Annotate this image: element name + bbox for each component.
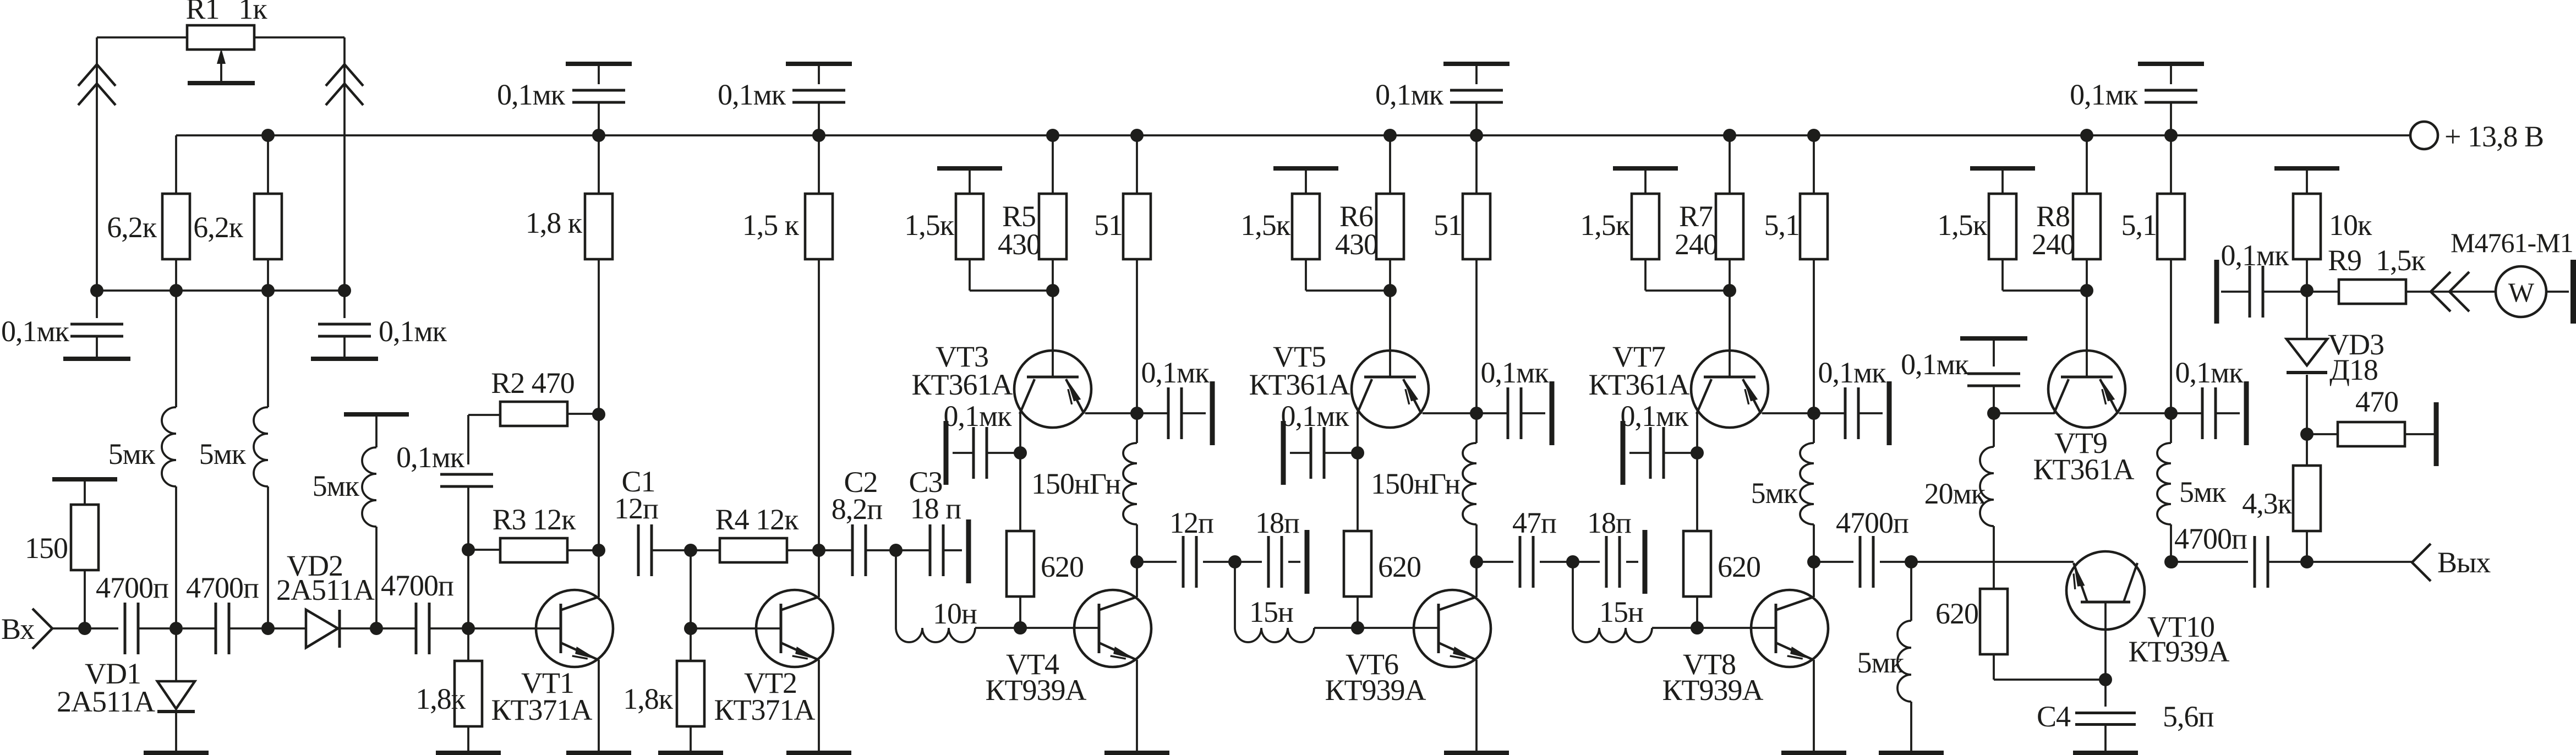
antenna chevrons left <box>78 64 116 86</box>
node bias 6,2k1 <box>169 284 183 297</box>
bar 470 <box>2434 402 2439 466</box>
svg-text:12п: 12п <box>1169 506 1213 539</box>
bar meter <box>2570 260 2576 324</box>
transistor VT4 KT939A <box>1074 590 1151 667</box>
svg-text:150нГн: 150нГн <box>1031 467 1120 500</box>
wire to VT10 emitter <box>1911 561 2074 563</box>
node VT3 emitter load <box>1130 555 1144 568</box>
resistor 150 <box>52 477 117 482</box>
svg-text:0,1мк: 0,1мк <box>1 315 70 348</box>
svg-text:5мк: 5мк <box>1751 477 1798 510</box>
wire VT4 collector <box>1136 562 1138 597</box>
node VT7 emitter load <box>1807 555 1820 568</box>
resistor R6 430 <box>1389 135 1391 194</box>
node VT7 emitter <box>1807 407 1820 420</box>
capacitor 0,1mk VT7 emitter <box>1814 412 1846 414</box>
ground VT4 <box>1104 751 1169 755</box>
svg-text:1,5 к: 1,5 к <box>742 209 800 242</box>
node R3 right / C1 <box>592 544 605 557</box>
svg-text:4700п: 4700п <box>2174 522 2247 555</box>
wire VT5 collector <box>1357 413 1359 453</box>
node VT5 collector <box>1351 446 1364 459</box>
node bias right <box>338 284 351 297</box>
node bias VT7 <box>1723 284 1736 297</box>
wattmeter M4761-M1 <box>2496 266 2546 317</box>
svg-text:Д18: Д18 <box>2329 353 2378 386</box>
wire VT7 emitter <box>1762 412 1814 414</box>
ground 1,8k VT1 <box>436 751 501 755</box>
node VT5 emitter load <box>1470 555 1483 568</box>
node VT10 collector <box>2165 555 2178 568</box>
ground VT6 <box>1444 751 1509 755</box>
node 47p/18p <box>1566 555 1579 568</box>
svg-text:1,8 к: 1,8 к <box>526 206 583 239</box>
transistor VT2 KT371A <box>756 590 833 667</box>
inductor 15n stage2 <box>1234 562 1236 628</box>
svg-text:5мк: 5мк <box>1857 646 1905 679</box>
capacitor C2 8,2p <box>819 549 852 551</box>
node C1/VT2 base <box>684 544 697 557</box>
svg-text:C4: C4 <box>2037 700 2071 733</box>
node VT9 collector <box>1987 407 2000 420</box>
inductor 5mk #1 <box>175 291 177 407</box>
resistor 620 VT7 <box>1696 453 1698 531</box>
svg-text:470: 470 <box>2355 385 2398 418</box>
node R9 <box>2300 284 2314 297</box>
node rail R7 <box>1723 129 1736 142</box>
svg-text:240: 240 <box>1675 228 1718 261</box>
svg-text:0,1мк: 0,1мк <box>2221 239 2290 272</box>
wire VT4 emitter <box>1136 660 1138 751</box>
resistor 1,8k VT1 base <box>467 628 469 661</box>
resistor 51 VT3 <box>1136 135 1138 194</box>
capacitor 4700p #2 <box>183 627 216 630</box>
meter chevrons <box>2431 272 2451 311</box>
node VT6 base <box>1351 621 1364 634</box>
wire VT6 emitter <box>1475 660 1478 751</box>
svg-text:0,1мк: 0,1мк <box>944 400 1013 433</box>
svg-text:1,5к: 1,5к <box>1937 209 1988 242</box>
wire VT10 base <box>2104 602 2107 680</box>
node rail R5 <box>1046 129 1059 142</box>
capacitor C3 18 p <box>896 549 930 551</box>
node VT2 collector <box>812 544 825 557</box>
svg-text:0,1мк: 0,1мк <box>497 78 566 111</box>
svg-text:5,1: 5,1 <box>2121 209 2157 242</box>
diode VD1 2A511A <box>175 628 177 681</box>
resistor 620 VT3 <box>1019 453 1021 531</box>
node rail 5,1 <box>2164 129 2178 142</box>
resistor 5,1 VT9 <box>2170 135 2172 194</box>
capacitor 4700p #3 <box>382 627 416 630</box>
wire VT3 emitter <box>1085 412 1137 414</box>
svg-text:R2 470: R2 470 <box>491 366 575 400</box>
svg-text:8,2п: 8,2п <box>832 493 883 526</box>
node bias VT5 <box>1383 284 1397 297</box>
node VT3 collector <box>1014 446 1027 459</box>
capacitor 0,1mk bypass stage VT5 <box>1443 62 1509 66</box>
wire VT2 base column <box>690 550 692 628</box>
inductor 5mk shunt <box>1910 562 1912 621</box>
wire VT3 base <box>1052 291 1054 376</box>
svg-text:1,5к: 1,5к <box>1240 209 1291 242</box>
svg-text:620: 620 <box>1041 550 1084 583</box>
node VT7 collector <box>1691 446 1704 459</box>
svg-text:5,6п: 5,6п <box>2163 700 2214 733</box>
resistor 1,8 k collector VT1 <box>598 135 600 194</box>
resistor R8 240 <box>2086 135 2088 194</box>
svg-text:КТ371А: КТ371А <box>491 693 593 726</box>
svg-text:2А511А: 2А511А <box>276 573 375 606</box>
node bias left <box>90 284 103 297</box>
svg-text:+ 13,8 В: + 13,8 В <box>2444 120 2544 153</box>
svg-text:47п: 47п <box>1512 506 1556 539</box>
svg-text:R9: R9 <box>2328 244 2361 277</box>
inductor 5мк VT9 <box>2170 413 2172 443</box>
capacitor 0,1mk VT3 emitter <box>1137 412 1169 414</box>
svg-text:4700п: 4700п <box>1836 506 1908 539</box>
output terminal Vyh <box>2307 561 2412 563</box>
svg-text:0,1мк: 0,1мк <box>1818 356 1887 389</box>
wire meter right <box>2546 291 2569 293</box>
node 4700p/5mk <box>1905 555 1918 568</box>
capacitor C1 12p <box>637 524 640 576</box>
svg-text:Вых: Вых <box>2437 546 2491 579</box>
resistor 1,5k bias VT3 <box>937 166 1002 171</box>
svg-text:0,1мк: 0,1мк <box>718 78 786 111</box>
wire VT5 base <box>1389 291 1391 376</box>
svg-text:КТ939А: КТ939А <box>1662 674 1764 707</box>
ground C4 <box>2073 751 2138 755</box>
inductor 150нГн VT3 <box>1136 413 1138 443</box>
resistor R1 1k potentiometer <box>187 25 254 50</box>
resistor 6,2k #2 <box>267 135 269 194</box>
node VD3 cathode <box>2300 428 2314 441</box>
wire base to VT1 <box>468 627 561 630</box>
node VT4 base <box>1014 621 1027 634</box>
svg-text:15н: 15н <box>1599 595 1643 628</box>
diode VD3 D18 <box>2306 375 2308 434</box>
svg-text:20мк: 20мк <box>1924 477 1986 510</box>
node rail 51 <box>1470 129 1483 142</box>
svg-text:4,3к: 4,3к <box>2242 487 2293 520</box>
capacitor 0,1mk VT7 base bypass <box>1621 421 1626 485</box>
resistor 4,3k <box>2306 531 2308 562</box>
transistor VT7 КТ361А <box>1691 351 1768 428</box>
wire base to VT2 <box>691 627 781 630</box>
svg-text:КТ361А: КТ361А <box>912 368 1013 401</box>
svg-text:6,2к: 6,2к <box>107 211 157 244</box>
inductor 150нГн VT5 <box>1475 413 1478 443</box>
node VT8 base <box>1691 621 1704 634</box>
svg-text:0,1мк: 0,1мк <box>396 441 465 474</box>
inductor 5mk #2 <box>267 291 269 407</box>
wire VT8 base <box>1697 627 1776 629</box>
svg-text:4700п: 4700п <box>96 571 168 604</box>
svg-text:5мк: 5мк <box>108 437 156 470</box>
wire VT9 base <box>2086 291 2088 376</box>
wire input <box>52 627 118 630</box>
svg-text:51: 51 <box>1434 209 1462 242</box>
svg-text:620: 620 <box>1935 597 1978 630</box>
svg-text:4700п: 4700п <box>186 571 259 604</box>
node bias VT9 <box>2080 284 2093 297</box>
wire VT7 collector <box>1696 413 1698 453</box>
wire VT2 emitter <box>818 660 820 751</box>
node VT9 emitter <box>2164 407 2178 420</box>
capacitor 0,1mk bypass stage VT9 <box>2138 62 2204 66</box>
node VT3 620 bottom <box>1014 621 1027 634</box>
inductor 15n stage3 <box>1572 562 1574 628</box>
node bias 6,2k2 <box>261 284 275 297</box>
svg-text:18 п: 18 п <box>910 492 961 525</box>
resistor R7 240 <box>1729 135 1731 194</box>
inductor 5мк VT7 <box>1813 413 1815 443</box>
svg-text:0,1мк: 0,1мк <box>379 315 447 348</box>
transistor VT8 KT939A <box>1751 590 1828 667</box>
inductor 20mk <box>1993 413 1995 447</box>
resistor 6,2k #1 <box>175 259 177 291</box>
svg-text:1,5к: 1,5к <box>904 209 955 242</box>
svg-text:1,5к: 1,5к <box>1580 209 1631 242</box>
ground VT8 <box>1781 751 1846 755</box>
resistor 1,5k bias VT5 <box>1273 166 1338 171</box>
svg-text:12п: 12п <box>614 492 658 525</box>
svg-text:0,1мк: 0,1мк <box>2070 78 2139 111</box>
wire VT1 collector <box>598 550 600 597</box>
wire VT9 emitter <box>2119 412 2171 414</box>
svg-text:1к: 1к <box>238 0 267 25</box>
node C2/C3 <box>889 544 903 557</box>
wire VT1 emitter <box>598 660 600 751</box>
svg-text:КТ371А: КТ371А <box>714 693 816 726</box>
ground VD1 <box>144 751 209 755</box>
node rail 51 <box>1130 129 1144 142</box>
node rail 5,1 <box>1807 129 1820 142</box>
resistor R4 12k <box>691 549 720 551</box>
node 150/input <box>78 622 91 635</box>
svg-text:0,1мк: 0,1мк <box>1481 356 1550 389</box>
svg-text:4700п: 4700п <box>381 569 453 602</box>
svg-text:5мк: 5мк <box>199 437 247 470</box>
node rail 6,2k #2 <box>261 129 275 142</box>
resistor 620 VT10 <box>1980 589 2008 654</box>
resistor 10k <box>2274 166 2339 171</box>
capacitor 0,1mk VT9 emitter <box>2171 412 2203 414</box>
node VT7 620 bottom <box>1691 621 1704 634</box>
ground VT1 emitter <box>566 751 631 755</box>
capacitor 0,1mk VT5 emitter <box>1476 412 1509 414</box>
svg-text:КТ939А: КТ939А <box>1325 674 1426 707</box>
svg-text:240: 240 <box>2032 228 2075 261</box>
svg-text:5мк: 5мк <box>2179 475 2227 508</box>
capacitor 0,1mk VT9 collector <box>1960 336 2027 341</box>
resistor R9 1,5k <box>2307 291 2339 293</box>
svg-text:0,1мк: 0,1мк <box>2175 356 2244 389</box>
transistor VT9 КТ361А <box>2048 351 2125 428</box>
svg-text:М4761-М1: М4761-М1 <box>2451 227 2573 258</box>
wire VT2 collector leg <box>818 550 820 597</box>
resistor 620 VT5 <box>1357 453 1359 531</box>
svg-text:0,1мк: 0,1мк <box>1375 78 1444 111</box>
svg-text:620: 620 <box>1378 550 1421 583</box>
node bias VT3 <box>1046 284 1059 297</box>
resistor 1,8k VT2 base <box>690 628 692 661</box>
wire VT6 base <box>1358 627 1439 629</box>
svg-text:W: W <box>2508 277 2535 308</box>
resistor 51 VT5 <box>1475 135 1478 194</box>
svg-text:R4 12к: R4 12к <box>715 503 800 536</box>
ground VT2 emitter <box>786 751 851 755</box>
svg-text:10н: 10н <box>933 597 977 630</box>
capacitor 4700p stage4 <box>1814 561 1853 563</box>
capacitor 0,1mk VT1 base <box>467 415 469 464</box>
svg-text:430: 430 <box>1335 228 1378 261</box>
transistor VT6 KT939A <box>1414 590 1491 667</box>
svg-text:0,1мк: 0,1мк <box>1281 400 1350 433</box>
wire VT8 emitter <box>1813 660 1815 751</box>
capacitor 0,1mk R9 <box>2214 260 2219 324</box>
wire VT1 base column <box>467 550 469 628</box>
svg-text:КТ939А: КТ939А <box>986 674 1087 707</box>
capacitor 47p <box>1476 561 1513 563</box>
svg-text:1,5к: 1,5к <box>2376 244 2426 277</box>
wire rail left drop to 6,2k <box>175 135 177 194</box>
wire R1 left to left antenna column <box>97 36 187 39</box>
svg-text:18п: 18п <box>1587 506 1631 539</box>
diode VD2 2A511A <box>274 627 306 630</box>
capacitor C4 5,6p <box>2104 680 2107 707</box>
resistor 5,1 VT7 <box>1813 135 1815 194</box>
node VT3 emitter <box>1130 407 1144 420</box>
svg-text:R1: R1 <box>185 0 219 25</box>
svg-text:15н: 15н <box>1249 595 1293 628</box>
resistor 470 <box>2307 433 2338 435</box>
resistor 1,5k bias VT7 <box>1613 166 1678 171</box>
node rail VT1 <box>592 129 605 142</box>
node rail VT2 <box>812 129 825 142</box>
antenna chevrons right <box>326 64 363 86</box>
svg-text:R3 12к: R3 12к <box>493 503 577 536</box>
svg-text:КТ361А: КТ361А <box>2033 453 2135 486</box>
wire VT5 emitter <box>1423 412 1476 414</box>
node rail R6 <box>1383 129 1397 142</box>
wire VT1 collector column <box>598 414 600 550</box>
svg-text:0,1мк: 0,1мк <box>1621 400 1689 433</box>
svg-text:51: 51 <box>1094 209 1123 242</box>
svg-text:1,8к: 1,8к <box>415 682 466 715</box>
node VT5 emitter <box>1470 407 1483 420</box>
transistor VT3 КТ361А <box>1014 351 1091 428</box>
wire bias row <box>97 289 344 292</box>
resistor R2 470 <box>468 414 500 416</box>
transistor VT10 KT939A <box>2066 551 2145 630</box>
inductor 5mk #3 <box>344 412 409 417</box>
svg-text:0,1мк: 0,1мк <box>1141 356 1210 389</box>
svg-text:1,8к: 1,8к <box>623 682 674 715</box>
node R2/collector <box>592 408 605 421</box>
transistor VT1 KT371A <box>536 590 613 667</box>
ground 1,8k VT2 <box>658 751 723 755</box>
node VD1 <box>169 622 183 635</box>
wire VT3 collector <box>1019 413 1021 453</box>
svg-text:Вх: Вх <box>1 612 35 645</box>
svg-text:10к: 10к <box>2329 209 2372 242</box>
svg-text:0,1мк: 0,1мк <box>1901 348 1970 381</box>
node rail R8 <box>2080 129 2093 142</box>
node 12p/18p <box>1228 555 1241 568</box>
wire VT4 base <box>1020 627 1099 629</box>
capacitor 18p stage2 <box>1235 561 1262 563</box>
node VT2 base <box>684 622 697 635</box>
node 5mk3 <box>370 622 383 635</box>
svg-text:2А511А: 2А511А <box>57 685 155 718</box>
node VT1 base <box>462 622 475 635</box>
wire VT6 collector <box>1475 562 1478 597</box>
terminal +13,8 V <box>2410 122 2438 149</box>
svg-text:6,2к: 6,2к <box>193 211 244 244</box>
svg-text:430: 430 <box>998 228 1041 261</box>
node VT9 emitter load <box>2164 555 2178 568</box>
wire VT9 collector <box>1994 412 2054 414</box>
svg-text:КТ361А: КТ361А <box>1589 368 1690 401</box>
capacitor 0,1mk right <box>343 291 346 318</box>
wire +13,8V power rail <box>176 134 2410 136</box>
capacitor 0,1mk left <box>96 291 98 318</box>
wire R1 right to right antenna column <box>254 36 344 39</box>
capacitor 0,1mk bypass VT1 <box>566 62 632 66</box>
node VT10 base <box>2099 673 2112 686</box>
ground R1 wiper <box>220 61 222 83</box>
capacitor 4700p output <box>2172 561 2248 563</box>
svg-text:18п: 18п <box>1255 506 1299 539</box>
resistor R5 430 <box>1052 135 1054 194</box>
svg-text:КТ361А: КТ361А <box>1249 368 1350 401</box>
svg-text:150: 150 <box>25 532 68 565</box>
capacitor 0,1mk VT3 base bypass <box>944 421 949 485</box>
node VD2 anode <box>261 622 275 635</box>
wire VT8 collector <box>1813 562 1815 597</box>
capacitor 0,1mk bypass VT2 <box>786 62 852 66</box>
resistor 1,5 k collector VT2 <box>818 135 820 194</box>
node output <box>2300 555 2314 568</box>
capacitor 0,1mk VT5 base bypass <box>1281 421 1286 485</box>
svg-text:150нГн: 150нГн <box>1371 467 1460 500</box>
capacitor 12p <box>1137 561 1177 563</box>
svg-text:5мк: 5мк <box>313 469 360 502</box>
svg-text:620: 620 <box>1718 550 1760 583</box>
node R3 left <box>462 543 475 556</box>
svg-text:5,1: 5,1 <box>1764 209 1800 242</box>
ground 5mk shunt <box>1879 751 1944 755</box>
svg-text:КТ939А: КТ939А <box>2129 635 2230 668</box>
node VT5 620 bottom <box>1351 621 1364 634</box>
resistor 1,5k bias VT9 <box>1970 166 2035 171</box>
capacitor 18p stage3 <box>1573 561 1600 563</box>
wire VT7 base <box>1729 291 1731 376</box>
resistor R3 12k <box>468 549 500 551</box>
capacitor 4700p #1 <box>124 603 127 654</box>
transistor VT5 КТ361А <box>1352 351 1429 428</box>
inductor 10n <box>895 550 897 628</box>
input terminal Vx <box>32 609 52 649</box>
